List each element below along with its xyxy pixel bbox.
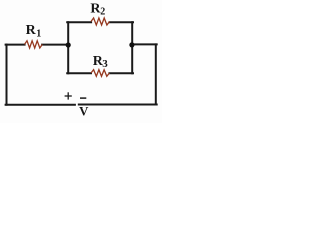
svg-text:1: 1 — [36, 28, 41, 39]
svg-text:2: 2 — [100, 6, 105, 17]
svg-text:3: 3 — [102, 58, 108, 70]
svg-text:V: V — [79, 104, 89, 118]
svg-text:R: R — [26, 23, 37, 38]
